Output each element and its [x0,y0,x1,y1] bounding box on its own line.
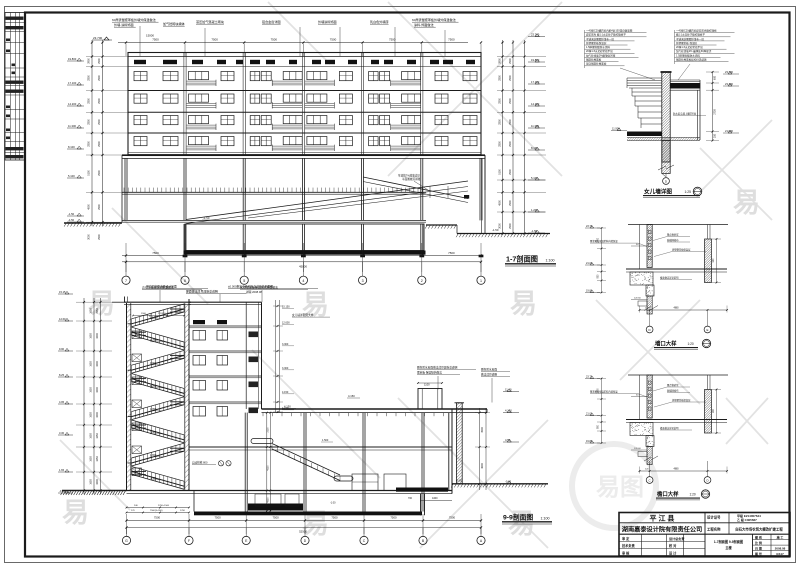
svg-text:2900: 2900 [98,204,101,210]
elevation windows bay 1 [134,72,178,146]
svg-text:檐口大样: 檐口大样 [657,490,679,498]
detail 3 yankou floor slab [626,420,727,423]
bottom dimensions of bottom drawing [125,496,482,534]
svg-text:7500: 7500 [214,516,221,520]
left ground hatch of bottom drawing [61,491,127,496]
svg-text:2900: 2900 [98,170,101,176]
svg-text:-1.00: -1.00 [330,502,336,505]
svg-text:7500: 7500 [211,38,218,42]
elevation marker 23.700 top left [92,36,112,40]
svg-text:7500: 7500 [152,251,159,255]
svg-text:4.150: 4.150 [284,405,291,409]
svg-text:聚苯板 保温隔热做法: 聚苯板 保温隔热做法 [417,371,442,375]
svg-text:7500: 7500 [449,516,456,520]
right ground line of bottom drawing [451,479,548,488]
svg-text:19.80: 19.80 [586,440,593,443]
svg-text:干铺无纺聚酯纤维布一层: 干铺无纺聚酯纤维布一层 [586,37,614,41]
svg-text:3000: 3000 [88,234,91,240]
svg-text:5.100: 5.100 [531,176,538,180]
svg-text:3.300: 3.300 [150,431,157,434]
svg-text:120 60: 120 60 [634,297,641,299]
svg-text:1.65: 1.65 [59,468,65,472]
svg-text:2900: 2900 [98,75,101,81]
svg-text:女儿墙详图: 女儿墙详图 [644,188,672,196]
svg-text:5.100: 5.100 [68,174,75,178]
svg-text:施 工: 施 工 [777,534,784,539]
svg-text:一40厚C20细石砼提浆压光随打随抹: 一40厚C20细石砼提浆压光随打随抹 [676,29,717,33]
svg-text:8.250: 8.250 [150,385,157,388]
svg-text:52500: 52500 [299,530,307,534]
building elevation outline [128,53,481,156]
svg-text:外墙-涂料饰面: 外墙-涂料饰面 [114,22,134,27]
detail 3 yankou left window wall [604,375,693,420]
svg-text:女儿墙详图見大样: 女儿墙详图見大样 [292,313,314,317]
svg-text:1.500: 1.500 [322,439,329,442]
svg-text:1: 1 [480,279,482,283]
stair tower walls [0,297,375,492]
svg-text:2900: 2900 [98,98,101,104]
stair tower door openings [132,331,142,476]
detail 3 yankou leader texts [590,383,706,430]
detail 2 qiangkou right column [661,225,755,283]
svg-text:2800: 2800 [498,75,501,81]
podium lower slab at -1.50 [122,216,426,222]
svg-text:4400: 4400 [432,497,438,500]
detail 3 yankou grid bubbles [646,461,711,483]
svg-text:7: 7 [125,279,127,283]
svg-text:3300: 3300 [96,333,99,339]
basement bottom slab of bottom drawing [194,491,422,516]
svg-text:5: 5 [243,279,245,283]
svg-text:3.300: 3.300 [282,343,289,346]
detail 1 parapet wall hatched [572,72,758,162]
svg-text:14.700: 14.700 [150,316,158,319]
svg-text:1:20: 1:20 [690,493,696,497]
svg-text:D: D [706,479,708,483]
svg-text:2800: 2800 [498,141,501,147]
svg-text:2900: 2900 [98,119,101,125]
long section floor2 slab [189,447,452,450]
svg-text:撒1:1水泥砂子随打随抹平: 撒1:1水泥砂子随打随抹平 [676,33,705,37]
svg-text:易图: 易图 [596,474,644,501]
top floor dark window band [134,60,475,64]
svg-text:2900: 2900 [98,58,101,64]
svg-text:加气砼找坡2%最薄处30厚: 加气砼找坡2%最薄处30厚 [586,53,616,57]
detail 2 qiangkou left window wall [604,225,693,270]
svg-text:21.00: 21.00 [586,262,593,265]
svg-text:19.800: 19.800 [68,57,77,61]
svg-text:3900: 3900 [88,58,91,64]
svg-text:设 计: 设 计 [669,550,677,555]
svg-text:乳白色外墙砖: 乳白色外墙砖 [370,19,389,24]
svg-text:1650: 1650 [90,387,93,393]
svg-text:工程名称: 工程名称 [707,527,721,532]
title block texts [622,513,786,556]
svg-text:15.15: 15.15 [59,290,66,294]
svg-text:钢筋砼屋面板: 钢筋砼屋面板 [586,58,602,62]
svg-text:1-7剖面图: 1-7剖面图 [506,255,538,264]
svg-text:2008.08: 2008.08 [775,546,786,550]
svg-text:9.90: 9.90 [59,347,65,351]
svg-text:4880: 4880 [673,469,679,471]
escalator pit dark slab [248,504,303,511]
svg-text:3300: 3300 [96,479,99,485]
svg-text:4: 4 [302,279,304,283]
svg-text:20厚1:3水泥砂浆找平层: 20厚1:3水泥砂浆找平层 [586,49,613,53]
detail 2 qiangkou concrete stipple block [630,272,654,296]
svg-text:4.95: 4.95 [59,400,65,404]
svg-text:3600: 3600 [481,463,484,469]
stair flights zigzag [128,304,185,489]
svg-text:2900: 2900 [98,141,101,147]
svg-text:7500: 7500 [390,516,397,520]
svg-text:E: E [707,328,709,332]
svg-text:1650: 1650 [90,456,93,462]
svg-text:加气砼砌块墙体: 加气砼砌块墙体 [163,21,185,26]
svg-text:3.30: 3.30 [59,431,65,435]
svg-text:做法詳見说明: 做法詳見说明 [481,373,497,377]
detail 1 left level marker [611,127,627,131]
svg-text:挤塑聚苯板 保温层: 挤塑聚苯板 保温层 [676,41,698,45]
elevation windows bay 3 with balcony [250,72,302,152]
annotation right of stair tower [292,313,330,317]
detail 2 qiangkou top roof line [628,224,728,226]
svg-text:3000: 3000 [498,223,501,229]
detail 2 qiangkou bottom dimension line [639,306,728,313]
svg-text:19.80: 19.80 [586,289,593,292]
svg-text:21.00: 21.00 [586,412,593,415]
roof bulkhead [417,382,443,409]
long section roof slab [262,394,488,416]
svg-text:4880: 4880 [673,308,679,310]
parking ramp diagonals [186,174,469,224]
svg-text:主楼: 主楼 [725,545,732,550]
svg-text:4.950: 4.950 [150,408,157,411]
svg-text:7500: 7500 [448,251,455,255]
svg-text:钢筋砼屋面板结构详见结施: 钢筋砼屋面板结构详见结施 [676,58,707,62]
stair tower interior dimension [132,313,185,316]
svg-text:250: 250 [714,133,717,138]
detail 3 yankou small dims near wall [631,394,647,456]
svg-text:60厚挤塑聚苯板外墙外保温做法: 60厚挤塑聚苯板外墙外保温做法 [112,17,156,22]
detail 1 wall below with break [629,141,701,177]
title of bottom drawing 9-9 [502,513,552,525]
svg-text:7500: 7500 [330,251,337,255]
svg-text:1650: 1650 [90,412,93,418]
svg-text:2900: 2900 [509,223,512,229]
svg-text:7500: 7500 [389,251,396,255]
svg-text:3300: 3300 [96,412,99,418]
svg-text:1.200: 1.200 [531,208,538,212]
svg-text:7500: 7500 [389,38,396,42]
svg-text:7500: 7500 [271,38,278,42]
elevation windows bay 5 with balcony [369,72,421,152]
grid bubbles of bottom drawing [122,528,485,545]
svg-text:7500: 7500 [330,38,337,42]
svg-text:刚性防水屋面做法詳見建施总说明: 刚性防水屋面做法詳見建施总说明 [417,366,458,370]
svg-text:3300: 3300 [96,361,99,367]
interior vertical dim chain of long section [266,412,271,512]
svg-text:一40厚C20细石砼内配4@150双向钢筋网: 一40厚C20细石砼内配4@150双向钢筋网 [586,29,633,33]
left ground line with hatch [64,223,122,227]
svg-text:平面图坡道详图: 平面图坡道详图 [402,177,421,181]
svg-text:1650: 1650 [90,361,93,367]
svg-text:现浇钢筋砼屋面板: 现浇钢筋砼屋面板 [586,62,607,66]
detail 1 dimensions right [706,70,739,142]
svg-text:2800: 2800 [498,98,501,104]
svg-text:易: 易 [62,498,89,528]
basement box walls [185,224,424,251]
svg-text:2900: 2900 [509,75,512,81]
svg-text:3500: 3500 [481,427,484,433]
svg-text:4350: 4350 [268,465,270,471]
svg-text:2800: 2800 [88,75,91,81]
svg-text:2700+1500: 2700+1500 [158,505,170,507]
detail 1 right wall lines [698,80,701,140]
svg-text:2900: 2900 [509,98,512,104]
mid tower right dimension chain [273,300,294,413]
elevation windows bay 2 with balcony [187,72,235,152]
svg-text:3300: 3300 [96,387,99,393]
detail 3 yankou concrete stipple block [630,423,654,447]
podium columns [125,158,482,250]
svg-text:120 60: 120 60 [634,448,641,450]
svg-text:2800: 2800 [88,141,91,147]
svg-text:1.5厚聚氨酯防水涂料: 1.5厚聚氨酯防水涂料 [586,45,610,49]
svg-text:4950: 4950 [268,497,270,503]
svg-text:9.900: 9.900 [150,362,157,365]
svg-text:1.650: 1.650 [150,454,157,457]
svg-text:7500: 7500 [272,516,279,520]
stair level texts [150,316,163,480]
svg-text:1650: 1650 [90,433,93,439]
escalator [192,439,353,482]
detail 3 yankou wall below slab [629,447,669,465]
svg-text:2900: 2900 [509,141,512,147]
left dimension chains of top drawing [86,40,128,240]
svg-text:3900: 3900 [498,58,501,64]
top annotation leader texts [112,17,459,56]
svg-text:詳圖 2008.08: 詳圖 2008.08 [246,290,262,294]
annotations above bottom right end [417,366,510,403]
long section ground slab [127,491,453,494]
svg-text:易: 易 [733,188,760,218]
svg-text:600: 600 [714,75,717,80]
svg-text:7500: 7500 [154,516,161,520]
svg-text:D: D [649,328,651,332]
basement bottom slab [183,251,484,258]
svg-text:4500: 4500 [498,200,501,206]
right level markers of bottom drawing [503,387,519,484]
elevation floor lines [128,91,481,156]
svg-text:-0.05: -0.05 [150,477,156,480]
title block table [619,513,790,557]
svg-text:8.100: 8.100 [531,146,538,150]
svg-text:1650: 1650 [90,333,93,339]
svg-text:-0.05: -0.05 [456,479,462,483]
svg-text:1650: 1650 [90,308,93,314]
svg-text:1700: 1700 [180,510,186,512]
svg-text:60厚挤塑聚苯板外墙外保温做法: 60厚挤塑聚苯板外墙外保温做法 [412,17,456,22]
svg-text:7500: 7500 [211,251,218,255]
svg-text:1650: 1650 [90,479,93,485]
svg-text:-1.50: -1.50 [68,212,75,216]
svg-text:5100: 5100 [88,170,91,176]
detail 3 yankou right dimension chain [712,389,721,434]
svg-text:8.25: 8.25 [59,373,65,377]
right dimension chain of bottom drawing [475,408,490,490]
svg-text:自动扶梯 800: 自动扶梯 800 [192,461,208,465]
svg-text:4.150: 4.150 [282,391,289,394]
svg-text:23.700: 23.700 [93,36,103,40]
svg-text:2900: 2900 [98,234,101,240]
svg-text:700: 700 [408,497,413,500]
interior fixtures bottom level [255,474,448,506]
svg-text:涂料-饰面做法: 涂料-饰面做法 [414,22,434,27]
left elevation level markers [67,57,84,222]
svg-text:7500: 7500 [271,251,278,255]
detail 2 title [654,339,711,349]
svg-text:17.100: 17.100 [68,81,77,85]
svg-text:20厚1:3水泥砂浆找平层: 20厚1:3水泥砂浆找平层 [676,45,703,49]
svg-text:12.60: 12.60 [59,317,66,321]
notes below top drawing [146,285,318,289]
svg-text:外墙涂料饰面: 外墙涂料饰面 [318,19,337,24]
right ground lines with hatch [425,155,550,237]
svg-text:技术负责: 技术负责 [622,543,636,548]
svg-text:F: F [188,539,190,543]
podium middle slab [122,188,426,195]
left dimension chains of bottom drawing [76,298,112,494]
svg-text:校 对: 校 对 [669,543,677,548]
svg-text:高分子卷材防水屋面做法: 高分子卷材防水屋面做法 [142,285,174,290]
right elevation level markers [528,33,545,234]
svg-text:6: 6 [184,279,186,283]
svg-text:2550: 2550 [96,308,99,314]
svg-text:铝合金窗详图: 铝合金窗详图 [262,19,281,24]
svg-text:防水层沿墙上翻250高: 防水层沿墙上翻250高 [673,112,697,116]
svg-text:14.200: 14.200 [68,102,77,106]
svg-text:11.300: 11.300 [68,124,77,128]
svg-text:2900: 2900 [509,119,512,125]
svg-text:2900: 2900 [509,169,512,175]
detail 1 title [643,187,702,197]
detail 2 qiangkou right dimension chain [712,238,721,283]
svg-text:3300: 3300 [268,427,270,433]
detail 3 yankou bottom dimension line [639,467,728,474]
annotations above bottom drawing [142,285,308,303]
detail 2 qiangkou floor slab [626,269,727,272]
svg-text:C: C [649,479,651,483]
detail 2 qiangkou left dimension markers [585,225,606,294]
svg-text:1:20: 1:20 [688,342,694,346]
svg-text:设计证号: 设计证号 [707,515,721,520]
svg-text:挤塑聚苯板保温层: 挤塑聚苯板保温层 [586,41,607,45]
svg-text:30厚聚苯板保温隔热屋面做法: 30厚聚苯板保温隔热屋面做法 [240,285,278,290]
svg-text:15000: 15000 [146,34,154,38]
detail 1 roof layer lines left [627,78,662,128]
svg-text:7500: 7500 [152,38,159,42]
detail 3 yankou left dimension markers [585,375,606,444]
svg-text:GS17: GS17 [776,552,784,556]
svg-text:2800: 2800 [88,119,91,125]
right screen wall [375,403,540,484]
top dimension line of elevation [118,34,482,57]
svg-text:2700: 2700 [714,109,717,115]
svg-text:3: 3 [362,279,364,283]
svg-text:12.600: 12.600 [282,322,290,325]
svg-text:易: 易 [510,289,537,319]
detail 1 notes column A [585,29,656,81]
svg-text:车道按7%放坡詳見: 车道按7%放坡詳見 [398,174,420,178]
svg-text:白石大市场农贸大棚改扩建工程: 白石大市场农贸大棚改扩建工程 [735,526,783,531]
svg-text:1.5厚聚氨酯防水涂料: 1.5厚聚氨酯防水涂料 [676,53,700,57]
svg-text:图 号: 图 号 [755,551,762,556]
signature strip table [5,13,25,161]
svg-text:墙口大样: 墙口大样 [655,340,677,348]
svg-text:1:25: 1:25 [685,190,692,194]
svg-text:1-7剖面图 9-9剖面图: 1-7剖面图 9-9剖面图 [714,539,743,544]
detail 1 grid bubble [663,174,670,185]
svg-text:刚性防水屋面: 刚性防水屋面 [481,368,497,372]
svg-text:日 期: 日 期 [755,545,762,550]
svg-text:7500: 7500 [448,38,455,42]
svg-text:7500: 7500 [331,516,338,520]
detail 2 qiangkou wall below slab [629,296,669,314]
svg-text:2800: 2800 [88,98,91,104]
svg-text:1:100: 1:100 [541,516,550,520]
svg-text:1650: 1650 [96,433,99,439]
svg-text:提浆压光 撒1:1水泥砂子随打随抹平: 提浆压光 撒1:1水泥砂子随打随抹平 [586,33,626,37]
elevation windows bay 6 [435,72,477,146]
detail 1 inner leader text [673,112,706,116]
svg-text:3.300: 3.300 [282,367,289,370]
left level markers of bottom drawing [58,290,73,493]
svg-text:设计总负责: 设计总负责 [669,536,684,541]
elevation windows bay 4 with balcony [305,72,353,152]
svg-text:23.70: 23.70 [586,375,593,378]
svg-text:2900: 2900 [509,58,512,64]
long section columns [245,409,452,515]
grid bubbles of top drawing [122,262,485,284]
detail 2 qiangkou small dims near wall [631,244,647,306]
svg-text:乙 级 C305667: 乙 级 C305667 [737,517,757,522]
svg-text:-4.50: -4.50 [68,218,75,222]
detail 3 yankou right column [661,375,755,433]
detail 1 notes column B [675,29,735,81]
detail 1 roof dark insulation band right [670,80,700,90]
svg-text:比 例: 比 例 [755,540,762,545]
detail 1 floor slab dark band [624,132,701,141]
svg-text:2: 2 [421,279,423,283]
svg-text:9-9剖面图: 9-9剖面图 [503,513,533,522]
svg-text:11.900: 11.900 [612,127,620,131]
svg-text:4500: 4500 [88,204,91,210]
svg-text:2800: 2800 [498,119,501,125]
svg-text:8.100: 8.100 [68,145,75,149]
svg-text:审 核: 审 核 [622,550,630,555]
title of top drawing 1-7 [505,255,556,267]
mid tower dark band and windows [193,320,258,416]
svg-text:23.70: 23.70 [586,225,593,228]
svg-text:11.550: 11.550 [150,339,158,342]
svg-text:蒸压加气混凝土砌块: 蒸压加气混凝土砌块 [196,19,224,24]
svg-text:7500(3+300): 7500(3+300) [150,510,163,512]
svg-text:屋面做法詳見建施总说明: 屋面做法詳見建施总说明 [186,289,218,294]
svg-text:加气砼找坡2% 最薄处30厚现浇: 加气砼找坡2% 最薄处30厚现浇 [676,49,712,53]
svg-text:平 江 县: 平 江 县 [650,514,675,523]
detail 3 title [656,490,710,500]
